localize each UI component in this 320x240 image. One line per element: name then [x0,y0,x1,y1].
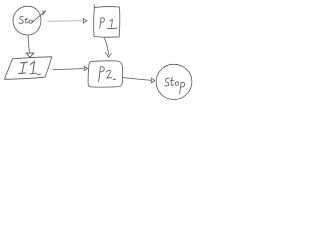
arrowhead into Stop [151,78,155,83]
arrowhead into P2 left [84,66,88,70]
label "Start" (handwritten) [19,11,45,24]
arrowhead into P1 [83,19,87,24]
process P2 (rounded box) [88,61,122,87]
label "P2." [99,67,116,82]
arrowhead into P2 top [105,52,111,57]
label "P1" with underline [100,18,117,29]
arrowhead into I1 top [26,52,34,54]
terminator Start (ellipse) [13,6,41,35]
wire P1 to P2 (down arrow) [105,38,109,55]
wire Start to I1 (vertical arrow) [28,36,29,53]
process P1 (rectangle) [94,7,120,37]
label "I1" with serifs and underline [19,61,41,74]
io I1 (parallelogram) [5,57,52,80]
terminator Stop (ellipse) [156,64,192,99]
wire I1 to P2 (horizontal arrow) [54,69,84,70]
wire Start to P1 (horizontal arrow) [48,20,84,22]
label "Stop" (handwritten) [165,77,185,94]
wire P2 to Stop (arrow) [123,78,151,81]
